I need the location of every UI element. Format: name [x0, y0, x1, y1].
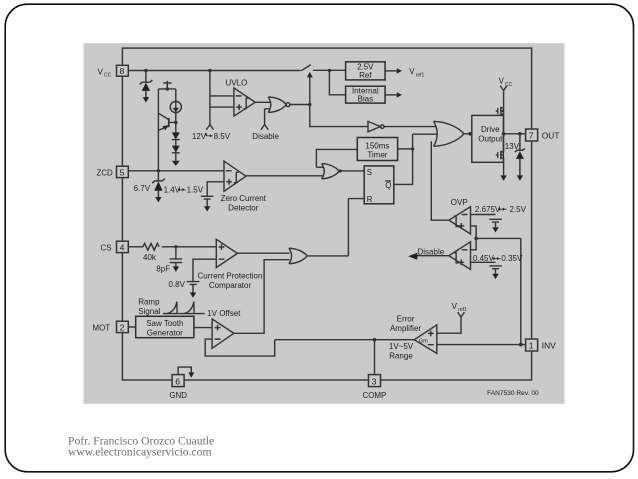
- svg-text:MOT: MOT: [93, 323, 111, 332]
- wire reset input: [348, 199, 364, 256]
- svg-text:150ms: 150ms: [365, 141, 389, 150]
- wire disable input to NOR: [265, 109, 270, 125]
- wire PWM feedback input: [205, 339, 275, 356]
- block saw tooth generator: [136, 316, 194, 337]
- node INV input: [519, 343, 523, 347]
- svg-text:V: V: [499, 76, 505, 85]
- svg-text:Disable: Disable: [252, 132, 279, 141]
- node Q1 base / diode chain: [174, 121, 178, 125]
- IC boundary rectangle: [122, 48, 531, 380]
- svg-text:ZCD: ZCD: [97, 168, 114, 177]
- svg-text:Range: Range: [389, 352, 413, 361]
- capacitor C1 8pF: [170, 247, 182, 267]
- resistor R1 40k: [143, 243, 159, 250]
- wire ground hook arrow: [178, 367, 191, 375]
- supply tap Vref1: [458, 312, 465, 317]
- wire error amp output: [275, 339, 415, 341]
- svg-text:Signal: Signal: [138, 307, 160, 316]
- svg-text:Output: Output: [478, 135, 503, 144]
- wire INV to error amp: [437, 344, 526, 346]
- wire internal bias feed: [329, 70, 345, 94]
- transistor Q2 high side MOSFET: [500, 107, 502, 116]
- comparator U1 UVLO: [234, 88, 255, 116]
- node CS filter junction: [174, 245, 177, 248]
- svg-text:OUT: OUT: [542, 131, 560, 141]
- wire timer output: [398, 148, 413, 150]
- svg-text:2.675V: 2.675V: [475, 205, 501, 214]
- wire OVP threshold input: [471, 214, 496, 216]
- wire to COMP pin: [374, 340, 376, 375]
- wire latch riser to drive OR: [394, 134, 438, 184]
- pin 7 OUT: [526, 129, 538, 141]
- svg-text:0.45V: 0.45V: [473, 254, 495, 263]
- node INV sense junction: [474, 237, 478, 241]
- wire ZCD input: [128, 170, 224, 172]
- node drive input: [468, 132, 472, 136]
- wire ZCD comparator output: [246, 175, 323, 177]
- svg-text:Timer: Timer: [367, 151, 387, 160]
- svg-text:R: R: [367, 195, 373, 204]
- svg-text:3: 3: [372, 376, 377, 386]
- block drive output: [472, 115, 504, 162]
- wire UVLO output: [255, 101, 270, 103]
- wire CS input: [128, 246, 143, 248]
- svg-text:Bias: Bias: [358, 95, 374, 104]
- latch U3 SR: [364, 166, 394, 204]
- wire OVP sense input: [471, 226, 477, 239]
- diode D3: [172, 153, 180, 161]
- svg-text:13V: 13V: [505, 142, 520, 151]
- block 150ms timer: [357, 138, 397, 161]
- gate G2 inverter: [368, 121, 380, 131]
- wire NOR output: [290, 104, 310, 106]
- svg-text:V: V: [98, 67, 104, 76]
- wire comparator output: [237, 252, 289, 254]
- svg-text:FAN7530 Rev. 00: FAN7530 Rev. 00: [487, 390, 539, 397]
- wire OR to reset riser: [307, 255, 348, 257]
- reference V3 2.675V/2.5V: [489, 219, 502, 227]
- wire disable output arrow: [417, 255, 449, 257]
- svg-text:6: 6: [175, 376, 180, 386]
- svg-text:Amplifier: Amplifier: [390, 324, 421, 333]
- wire disable threshold input: [471, 261, 496, 263]
- svg-text:Ref: Ref: [359, 71, 372, 80]
- svg-text:Q: Q: [385, 181, 391, 190]
- comparator U6 OVP: [449, 207, 471, 234]
- comparator U7 disable detect: [449, 242, 471, 270]
- node timer output junction: [411, 147, 414, 150]
- node gate drive output: [502, 132, 506, 136]
- node rail-zener junction: [144, 69, 147, 72]
- node comp pin branch: [373, 338, 377, 342]
- gate G4 restart OR: [322, 164, 340, 179]
- node T-tap: [166, 87, 170, 91]
- svg-text:CS: CS: [101, 243, 112, 252]
- wire sense junction to INV riser: [476, 238, 521, 344]
- svg-text:Ramp: Ramp: [138, 297, 160, 306]
- pin 2 MOT: [117, 321, 129, 332]
- comparator U4 current protection: [216, 239, 237, 267]
- wire MOT input: [128, 326, 135, 328]
- svg-text:6.7V: 6.7V: [134, 184, 151, 193]
- wire high side drain: [503, 91, 505, 134]
- wire sawtooth to PWM comparator: [194, 327, 212, 329]
- gate G3 drive OR: [434, 121, 464, 146]
- gate G1 NOR: [268, 97, 286, 113]
- svg-text:S: S: [367, 168, 372, 177]
- reference V1 1.4V/1.5V: [201, 196, 214, 206]
- node NOR output branch: [308, 103, 311, 106]
- current source I1: [170, 101, 181, 112]
- svg-text:INV: INV: [542, 341, 556, 351]
- wire arrow from internal bias: [385, 94, 397, 96]
- svg-text:GND: GND: [169, 391, 187, 400]
- svg-text:2.5V: 2.5V: [510, 205, 527, 214]
- supply tap Vcc: [500, 86, 507, 91]
- svg-text:V: V: [452, 302, 458, 311]
- svg-text:UVLO: UVLO: [226, 78, 248, 87]
- svg-text:40k: 40k: [143, 253, 157, 262]
- comparator U5 PWM: [212, 319, 234, 348]
- reference V2 0.8V: [187, 282, 200, 293]
- diode D2: [172, 122, 180, 145]
- comparator U2 zero current detector: [224, 161, 246, 191]
- node rail to reference blocks: [328, 69, 331, 72]
- wire 0.8V ref input: [193, 259, 216, 281]
- svg-text:0.8V: 0.8V: [169, 280, 186, 289]
- svg-text:2: 2: [120, 323, 125, 333]
- svg-text:Zero Current: Zero Current: [221, 194, 267, 203]
- arrow diode chain to substrate: [172, 161, 180, 166]
- svg-text:1V Offset: 1V Offset: [207, 309, 241, 318]
- svg-text:1.4V: 1.4V: [164, 186, 181, 195]
- pin 3 COMP: [369, 375, 381, 387]
- threshold tap 12V/8.5V: [206, 125, 213, 130]
- wire arrow to Vref1: [385, 70, 397, 72]
- svg-text:1: 1: [529, 341, 534, 351]
- svg-text:4: 4: [120, 243, 125, 253]
- wire Vref1 to error amp: [437, 317, 461, 333]
- wire left clamp rail down to ZCD: [157, 89, 159, 171]
- svg-text:Saw Tooth: Saw Tooth: [146, 319, 183, 328]
- wire switch control arrow: [309, 77, 311, 104]
- svg-text:7: 7: [529, 131, 534, 141]
- pin 1 INV: [526, 339, 538, 351]
- svg-text:CC: CC: [104, 73, 112, 79]
- gate G5 protection OR: [289, 248, 307, 264]
- gray diagram panel: [84, 43, 565, 404]
- block Internal Bias: [346, 86, 386, 103]
- zener D5 13V: [515, 134, 525, 176]
- block 2.5V Ref: [346, 62, 386, 80]
- T bias tap element: [163, 81, 171, 89]
- wire output to pin 7: [504, 133, 526, 135]
- switch S1 on Vcc rail: [301, 65, 311, 71]
- svg-text:Generator: Generator: [147, 329, 183, 338]
- svg-text:Detector: Detector: [228, 204, 259, 213]
- svg-text:OVP: OVP: [451, 198, 468, 207]
- node output-zener: [518, 132, 522, 136]
- svg-text:5: 5: [120, 168, 125, 178]
- ramp waveform symbol: [163, 313, 205, 315]
- svg-text:8.5V: 8.5V: [214, 132, 231, 141]
- wire to comparator: [162, 246, 217, 248]
- transistor Q3 low side MOSFET: [503, 134, 505, 152]
- wire current source branch: [175, 89, 177, 123]
- svg-text:Disable: Disable: [418, 247, 445, 256]
- svg-text:ref1: ref1: [416, 73, 425, 79]
- svg-text:ref1: ref1: [458, 307, 467, 313]
- reference V4 0.45V/0.35V: [489, 266, 502, 274]
- wire OVP output to drive OR: [431, 141, 449, 220]
- svg-text:1V~5V: 1V~5V: [389, 342, 414, 351]
- svg-text:Current Protection: Current Protection: [198, 272, 263, 281]
- wire OR to drive output: [464, 133, 472, 135]
- svg-text:Gm: Gm: [419, 338, 428, 344]
- zener D4 6.7V: [152, 171, 165, 197]
- pin 8 VCC: [117, 65, 129, 76]
- pin 4 CS: [117, 241, 129, 252]
- svg-text:Drive: Drive: [481, 125, 500, 134]
- wire UVLO inputs from Vcc: [210, 71, 234, 125]
- pin 5 ZCD: [117, 166, 129, 177]
- wire set input: [338, 170, 364, 172]
- svg-text:Error: Error: [397, 315, 415, 324]
- wire Vcc rail: [128, 69, 345, 71]
- wire low side source to ground arrow: [503, 158, 505, 175]
- threshold tap Disable: [261, 125, 268, 130]
- svg-text:12V: 12V: [192, 132, 207, 141]
- wire NOR to inverter: [310, 105, 368, 127]
- wire timer input branch: [316, 149, 357, 167]
- svg-text:0.35V: 0.35V: [501, 254, 523, 263]
- transistor Q1 PNP clamp: [168, 118, 170, 127]
- svg-text:1.5V: 1.5V: [187, 186, 204, 195]
- zener D1 Vcc clamp: [140, 71, 153, 98]
- wire inverter output to drive OR: [384, 126, 436, 128]
- wire tap arms: [158, 88, 175, 90]
- wire ZCD ref input: [207, 182, 224, 196]
- wire disable sense input: [471, 238, 477, 249]
- svg-text:www.electronicayservicio.com: www.electronicayservicio.com: [68, 446, 211, 459]
- pin 6 GND: [172, 375, 184, 387]
- node rail-UVLO: [208, 69, 211, 72]
- wire PWM output to protection OR: [234, 260, 290, 334]
- svg-text:Comparator: Comparator: [209, 281, 252, 290]
- node ZCD clamp junction: [157, 169, 160, 172]
- svg-text:COMP: COMP: [363, 391, 387, 400]
- amplifier U8 error amp: [414, 325, 437, 354]
- svg-text:8pF: 8pF: [156, 264, 170, 273]
- svg-text:8: 8: [120, 66, 125, 76]
- svg-text:V: V: [409, 67, 415, 76]
